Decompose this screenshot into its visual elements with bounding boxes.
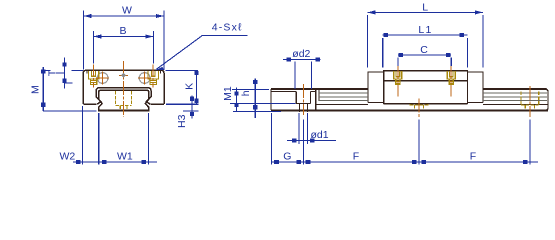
svg-text:ød2: ød2 xyxy=(292,48,310,60)
svg-text:F: F xyxy=(470,151,476,163)
svg-text:W2: W2 xyxy=(60,151,76,163)
svg-text:h: h xyxy=(240,90,252,96)
svg-text:T: T xyxy=(47,69,59,76)
svg-text:W1: W1 xyxy=(117,151,133,163)
svg-text:M: M xyxy=(30,85,42,94)
svg-text:B: B xyxy=(120,25,127,37)
svg-text:K: K xyxy=(183,83,195,90)
svg-text:G: G xyxy=(283,151,291,163)
svg-text:H3: H3 xyxy=(176,114,188,128)
svg-text:C: C xyxy=(420,44,428,56)
svg-text:L1: L1 xyxy=(418,24,432,36)
svg-text:L: L xyxy=(422,2,428,14)
svg-text:4-Sxℓ: 4-Sxℓ xyxy=(212,22,243,34)
svg-text:ød1: ød1 xyxy=(311,129,329,141)
svg-text:F: F xyxy=(353,151,359,163)
svg-text:W: W xyxy=(122,4,132,16)
svg-text:M1: M1 xyxy=(222,86,234,101)
